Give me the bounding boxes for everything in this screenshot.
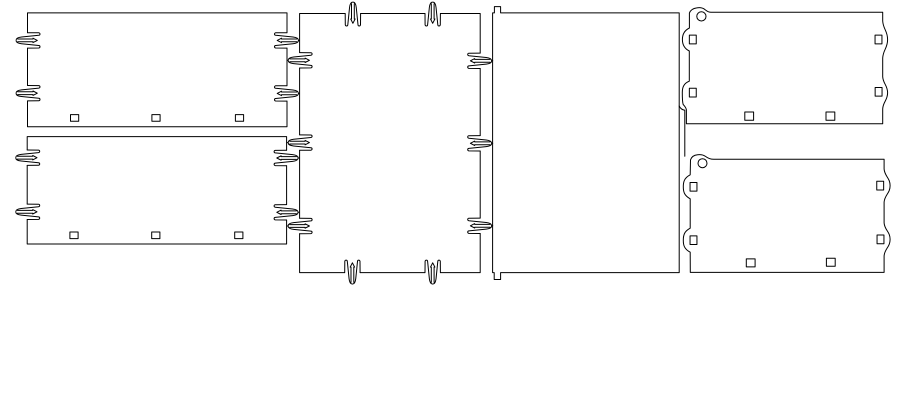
- panel E hanging hole circle: [697, 12, 706, 21]
- panel E slot hole bottom-mid 2: [826, 112, 835, 120]
- panel F outline (bottom lid with hanging tab): [683, 155, 890, 273]
- panel A slot hole 1: [71, 115, 79, 122]
- panel B slot hole 3: [235, 232, 243, 239]
- panel F slot hole bottom-right: [877, 235, 884, 244]
- panel C right clip 2: [468, 136, 493, 151]
- panel E slot hole bottom-mid 1: [745, 112, 754, 120]
- panel C top clip 1: [345, 2, 360, 26]
- panel E slot hole bottom-right: [875, 87, 882, 96]
- panel C right clip 1: [468, 53, 493, 68]
- panel C right clip 3: [468, 218, 493, 233]
- panel B right clip 1: [274, 150, 299, 165]
- panel A right clip 1: [275, 33, 300, 48]
- panel C outline (middle wall): [300, 14, 481, 273]
- panel C bottom clip 2: [425, 260, 440, 284]
- panel F hanging hole circle: [698, 159, 707, 168]
- panel B left clip 2: [16, 204, 40, 219]
- panel F slot hole bottom-mid 2: [826, 258, 835, 266]
- panel A outline (top-left side wall): [28, 13, 288, 127]
- panel F slot hole bottom-left: [690, 236, 697, 245]
- spacer line between panel D and panels E/F: [679, 106, 685, 156]
- panel B slot hole 2: [152, 232, 160, 239]
- panel A slot hole 3: [235, 115, 243, 122]
- panel E slot hole top-right: [875, 35, 882, 44]
- panel F slot hole bottom-mid 1: [746, 259, 755, 267]
- panel A left clip 2: [16, 86, 40, 101]
- panel F slot hole top-right: [877, 181, 884, 190]
- panel B left clip 1: [16, 150, 40, 165]
- panel B outline (bottom-left side wall): [27, 137, 286, 244]
- panel A slot hole 2: [152, 115, 160, 122]
- panel C left clip 1: [287, 53, 312, 68]
- panel E outline (top lid with hanging tab): [682, 8, 887, 124]
- panel C left clip 2: [287, 135, 312, 150]
- panel F slot hole top-left: [690, 182, 697, 191]
- panel D outline (plain back lid with alignment tabs): [493, 7, 680, 280]
- panel B slot hole 1: [70, 232, 78, 239]
- panel A left clip 1: [16, 33, 40, 48]
- panel C top clip 2: [425, 2, 440, 26]
- panel E slot hole bottom-left: [689, 88, 696, 97]
- panel B right clip 2: [274, 205, 299, 220]
- panel C left clip 3: [287, 218, 312, 233]
- panel C bottom clip 1: [345, 260, 360, 284]
- panel E slot hole top-left: [689, 35, 696, 44]
- panel A right clip 2: [275, 86, 300, 101]
